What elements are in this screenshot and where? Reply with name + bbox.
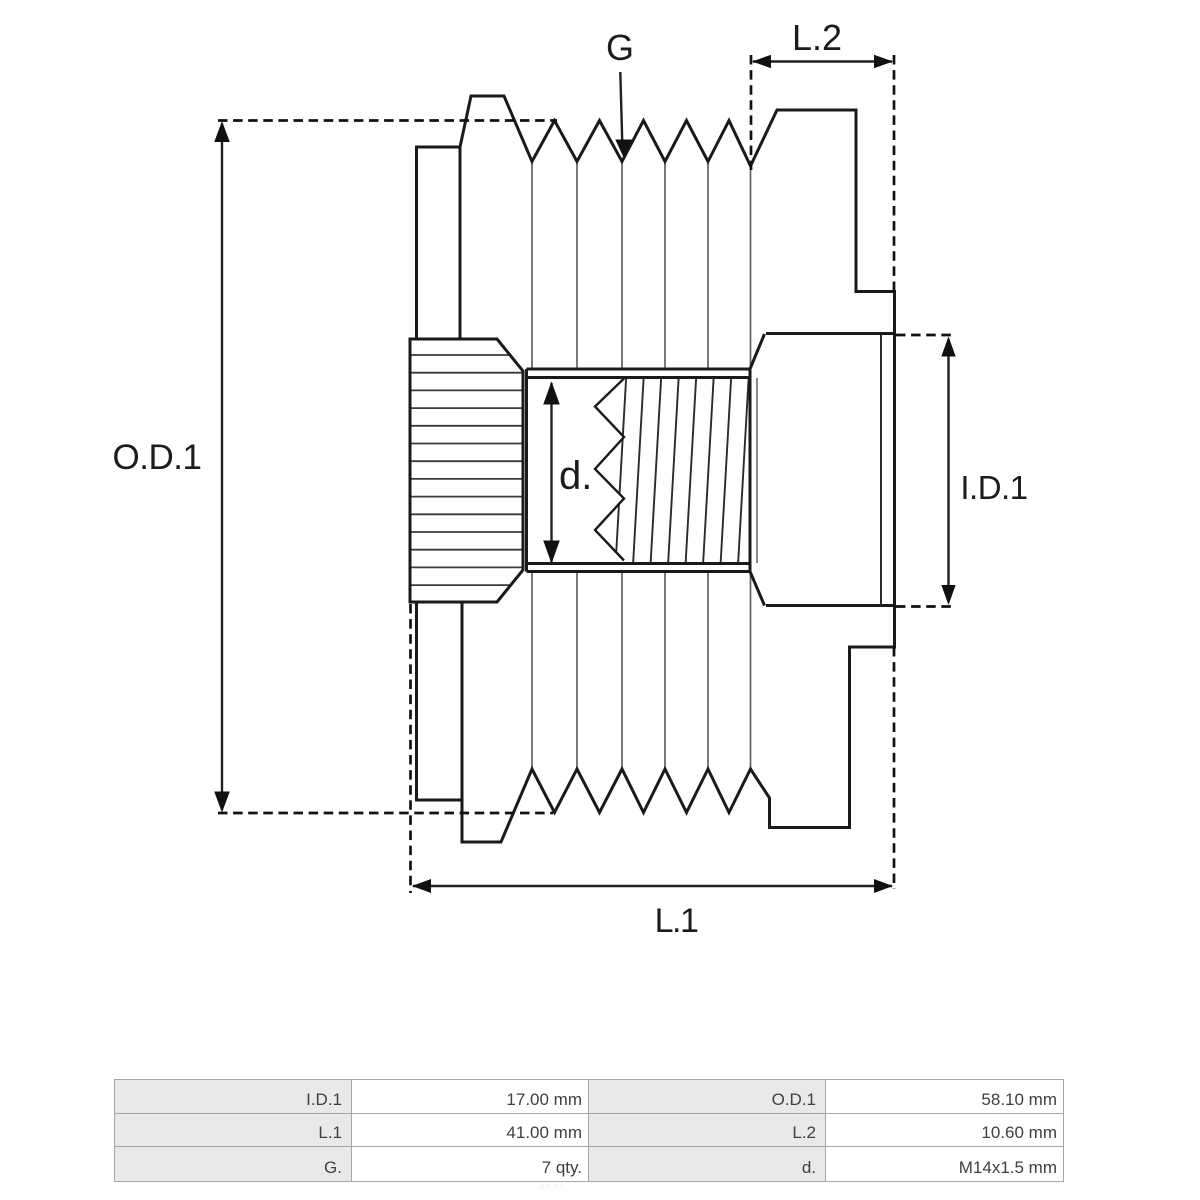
svg-text:L.1: L.1	[655, 902, 698, 940]
svg-text:O.D.1: O.D.1	[113, 438, 202, 477]
svg-text:L.2: L.2	[792, 17, 842, 58]
svg-text:G: G	[606, 27, 634, 68]
svg-text:I.D.1: I.D.1	[960, 469, 1027, 506]
svg-text:d.: d.	[559, 454, 592, 498]
